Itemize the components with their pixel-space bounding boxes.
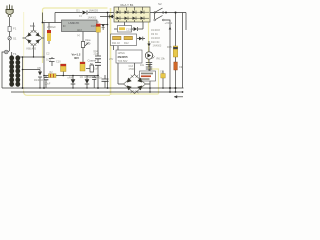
svg-text:1N4003: 1N4003 — [88, 16, 97, 19]
svg-text:C10: C10 — [56, 61, 61, 64]
svg-text:1uF: 1uF — [94, 68, 99, 71]
svg-text:OUT: OUT — [91, 24, 97, 28]
svg-text:220uF: 220uF — [44, 83, 51, 86]
svg-text:BR1: BR1 — [30, 24, 36, 28]
svg-text:S2: S2 — [158, 2, 162, 6]
svg-text:C2: C2 — [46, 52, 50, 56]
svg-text:D1: D1 — [76, 9, 80, 13]
svg-text:0.22: 0.22 — [46, 58, 52, 62]
svg-text:10n: 10n — [140, 64, 145, 67]
svg-text:R15: R15 — [167, 46, 172, 49]
svg-text:D9 3C: D9 3C — [151, 33, 158, 36]
svg-text:1N4003: 1N4003 — [151, 29, 160, 32]
svg-text:(+): (+) — [77, 35, 80, 37]
svg-text:TO3 50V: TO3 50V — [118, 60, 128, 63]
svg-text:Fine: Fine — [86, 38, 92, 42]
svg-text:1N4003: 1N4003 — [89, 9, 99, 13]
svg-text:1500u: 1500u — [95, 76, 103, 79]
svg-text:4700u: 4700u — [129, 68, 136, 71]
svg-text:2N3055: 2N3055 — [118, 55, 129, 59]
svg-text:D5: D5 — [38, 66, 42, 70]
svg-text:3C: 3C — [96, 21, 99, 24]
svg-text:R12: R12 — [124, 42, 129, 45]
svg-text:1N5908: 1N5908 — [84, 76, 93, 79]
svg-text:30V: 30V — [74, 56, 79, 60]
svg-text:1N4003: 1N4003 — [34, 79, 43, 82]
svg-text:IN: IN — [63, 24, 66, 28]
svg-text:C10B: C10B — [126, 29, 133, 32]
svg-text:R6 10k: R6 10k — [157, 57, 166, 61]
svg-text:R11 1K: R11 1K — [112, 42, 120, 45]
svg-text:2200uF: 2200uF — [47, 25, 56, 29]
svg-text:RLA Y B1: RLA Y B1 — [121, 3, 134, 7]
svg-text:1N4003: 1N4003 — [153, 45, 162, 48]
svg-text:F1: F1 — [13, 27, 17, 31]
svg-text:500: 500 — [86, 42, 91, 46]
svg-text:22uF: 22uF — [94, 53, 100, 56]
svg-text:T1: T1 — [13, 52, 17, 56]
svg-text:1N4003: 1N4003 — [151, 37, 160, 40]
svg-text:KBL405: KBL405 — [27, 47, 37, 51]
svg-text:25V: 25V — [109, 58, 114, 61]
svg-text:uFW: uFW — [68, 77, 74, 80]
svg-text:ADJ: ADJ — [77, 29, 82, 32]
svg-text:+VOut: +VOut — [165, 21, 173, 25]
svg-text:LM317K: LM317K — [69, 21, 80, 25]
svg-text:S1: S1 — [13, 37, 17, 41]
